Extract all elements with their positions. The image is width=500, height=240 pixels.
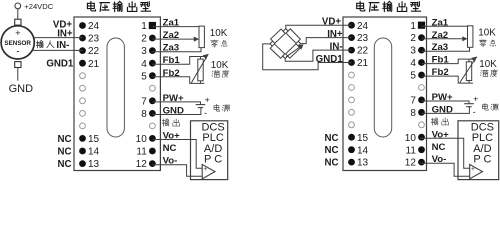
svg-text:4: 4 [141,59,147,70]
svg-text:NC: NC [325,133,339,144]
svg-text:+: + [15,28,20,38]
svg-text:-: - [16,46,19,57]
svg-text:IN+: IN+ [327,29,343,40]
potentiometer 10K zero R [468,26,473,48]
pin 8 R [418,109,425,116]
pin 14 L [79,148,86,155]
pin 15 L [79,135,86,142]
svg-text:NC: NC [325,145,339,156]
label 零点 L [211,40,218,47]
pin 2 L [149,35,156,42]
svg-text:+: + [205,95,210,105]
svg-text:23: 23 [88,34,100,45]
bridge resistor R-NW [271,29,286,43]
wire GND1 (bridge) [263,44,352,70]
wire Za2 (wiper) L [152,38,194,40]
svg-text:Fb1: Fb1 [163,55,181,66]
wire Za1 R [422,25,470,27]
wire Fb1 R [422,59,473,64]
pin 4 L [149,60,156,67]
svg-text:11: 11 [136,147,147,158]
label 输出 R [431,118,438,126]
svg-text:10: 10 [405,133,417,144]
wire Za1 L [152,26,201,28]
svg-text:NC: NC [163,143,177,154]
label 零点 R [479,40,486,47]
pin 8 L [149,110,156,117]
pin 1 (square) L [149,22,156,29]
+24VDC terminal [15,3,21,9]
wire IN+ (bridge) [301,38,352,44]
svg-text:10K: 10K [211,60,229,71]
svg-text:-: - [204,108,207,118]
svg-text:VD+: VD+ [322,16,341,27]
svg-text:Za1: Za1 [163,18,180,29]
DCS/PLC box R [458,121,499,180]
terminal block U-L [74,17,160,171]
pin 23 L [79,35,86,42]
wire VD+ (bridge) [286,25,352,28]
label 输出 L [162,119,169,127]
battery (power) R [464,103,474,105]
svg-text:GND: GND [9,83,33,95]
pin 1 (square) R [418,22,425,29]
svg-text:12: 12 [405,158,417,169]
DCS/PLC box L [191,121,228,180]
svg-text:Fb2: Fb2 [163,68,180,79]
wire to sensor + [17,9,19,19]
wire Vo+ R [420,138,470,168]
wire Fb2 L [152,77,204,84]
svg-text:P C: P C [204,153,222,165]
wire IN- [33,49,83,51]
label 满度 R [480,70,488,77]
sensor + terminal lug [15,19,21,25]
svg-text:3: 3 [141,46,147,57]
svg-text:Fb1: Fb1 [432,55,450,66]
svg-text:1: 1 [410,21,416,32]
svg-text:21: 21 [88,59,100,70]
svg-text:Za2: Za2 [432,30,449,41]
pin 13 R [348,159,355,166]
svg-text:8: 8 [410,108,416,119]
adjust arrow R [460,57,477,83]
wire Vo- R [420,163,470,176]
bridge resistor R-SW [270,44,285,58]
svg-text:15: 15 [357,133,369,144]
bridge resistor R-SE [286,44,301,58]
svg-text:NC: NC [58,159,72,170]
strain gauge arrow [286,46,302,57]
svg-text:P C: P C [473,153,491,165]
svg-text:21: 21 [357,58,369,69]
svg-text:8: 8 [141,109,147,120]
wire to GND [17,68,19,81]
potentiometer 10K full-scale L [198,59,203,81]
svg-text:IN-: IN- [56,40,69,51]
wire GND L [152,108,201,115]
pin 7 L [149,97,156,104]
svg-text:IN+: IN+ [57,29,73,40]
sensor body [1,26,34,59]
svg-text:+: + [203,166,207,173]
wire Za2 (wiper) R [422,38,464,40]
svg-text:7: 7 [410,96,416,107]
adjust arrow L [191,54,208,83]
svg-text:NC: NC [432,142,446,153]
svg-text:24: 24 [88,21,100,32]
wire PW+ R [422,101,470,103]
battery (power) L [196,104,206,106]
wire Za3 L [152,48,201,52]
svg-text:GND: GND [432,104,453,115]
svg-text:+: + [471,166,475,173]
bridge resistor R-NE [286,29,300,43]
pin 2 R [418,34,425,41]
svg-text:PW+: PW+ [432,92,453,103]
module outline (stadium) L [107,38,124,137]
wire PW+ L [152,102,200,104]
svg-text:10K: 10K [478,28,496,39]
pin 5 L [149,72,156,79]
pin 5 R [418,72,425,79]
pin 10 L [149,135,156,142]
svg-text:14: 14 [357,145,369,156]
pin 12 L [149,160,156,167]
svg-text:2: 2 [141,34,147,45]
svg-text:GND1: GND1 [46,58,74,69]
pin 21 R [348,59,355,66]
potentiometer 10K zero L [199,26,204,47]
pin 22 L [79,47,86,54]
wire Vo+ L [152,140,202,169]
svg-text:10K: 10K [479,59,497,70]
svg-text:+: + [473,94,478,104]
op-amp triangle R [470,164,483,178]
terminal block U-R [343,17,427,171]
svg-text:10K: 10K [210,28,228,39]
svg-text:Za1: Za1 [432,17,449,28]
pin 24 R [348,22,355,29]
svg-text:NC: NC [58,147,72,158]
svg-text:PW+: PW+ [163,93,184,104]
svg-text:23: 23 [357,33,369,44]
svg-text:NC: NC [325,158,339,169]
pin 12 R [418,159,425,166]
svg-text:15: 15 [88,134,100,145]
pin 11 L [149,148,156,155]
wire IN- (bridge) [285,50,351,61]
sensor - terminal lug [15,62,21,68]
wire Vo- L [152,165,202,177]
svg-text:Za3: Za3 [163,43,180,54]
svg-text:NC: NC [58,134,72,145]
svg-text:12: 12 [136,159,148,170]
label 输入 [36,40,43,48]
svg-text:7: 7 [141,96,147,107]
svg-text:11: 11 [406,145,417,156]
svg-text:1: 1 [141,21,147,32]
svg-text:22: 22 [88,46,100,57]
pin 13 L [79,160,86,167]
pin 3 L [149,47,156,54]
pin 10 R [418,134,425,141]
svg-text:+24VDC: +24VDC [24,2,53,11]
pin 21 L [79,60,86,67]
svg-text:14: 14 [88,147,100,158]
svg-text:22: 22 [357,46,369,57]
wire IN+ [34,37,83,39]
svg-text:5: 5 [410,71,416,82]
module outline (stadium) R [374,38,391,137]
potentiometer 10K full-scale R [466,62,471,81]
svg-text:2: 2 [410,33,416,44]
wire Fb1 L [152,57,204,65]
svg-text:13: 13 [357,158,369,169]
svg-text:Fb2: Fb2 [432,67,449,78]
title 电压输出型 (right) [357,1,365,11]
svg-text:IN-: IN- [330,41,343,52]
svg-text:4: 4 [410,58,416,69]
svg-text:Za2: Za2 [163,30,180,41]
load cell bridge outline [270,29,301,59]
pin 15 R [348,134,355,141]
pin 24 L [79,22,86,29]
label 满度 L [212,71,220,78]
wiper arrowhead L [194,37,199,42]
title 电压输出型 (left) [87,1,95,11]
pin 11 R [418,146,425,153]
svg-text:GND1: GND1 [316,54,344,65]
label 电源 L [214,104,220,111]
svg-text:-: - [473,107,476,117]
wire GND R [422,107,470,114]
svg-text:Za3: Za3 [432,42,449,53]
wire Fb2 R [422,76,473,83]
op-amp triangle L [202,164,215,178]
pin 4 R [418,59,425,66]
pin 3 R [418,47,425,54]
pin 22 R [348,47,355,54]
wire Za3 R [422,47,470,51]
svg-text:GND: GND [163,106,184,117]
label 电源 R [482,103,488,110]
pin 14 R [348,146,355,153]
pin 23 R [348,34,355,41]
svg-text:13: 13 [88,159,100,170]
wiper arrowhead R [462,36,467,41]
pin 7 R [418,97,425,104]
svg-text:5: 5 [141,71,147,82]
svg-text:24: 24 [357,21,369,32]
svg-text:10: 10 [136,134,148,145]
svg-text:3: 3 [410,46,416,57]
